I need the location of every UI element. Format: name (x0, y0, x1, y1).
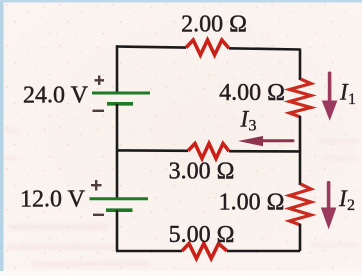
wire right (R4 to middle junction) (299, 116, 302, 152)
wire bottom (left segment) (116, 250, 182, 253)
battery V1 24.0V long plate (92, 92, 150, 95)
wire right (middle junction to R1ohm) (299, 151, 302, 185)
current arrow I3 (left) (238, 136, 295, 146)
battery V2 plus sign (91, 180, 102, 191)
ghost print speckles bottom left (4, 128, 358, 267)
svg-text:1.00 Ω: 1.00 Ω (219, 190, 285, 216)
resistor R=1.00 ohm (right lower, vertical) (290, 184, 312, 225)
battery V2 12.0V short plate (106, 208, 133, 212)
svg-text:5.00 Ω: 5.00 Ω (169, 222, 235, 248)
blue page border top (0, 0, 362, 3)
svg-text:1: 1 (348, 91, 356, 108)
resistor R=2.00 ohm (top) (186, 40, 229, 55)
wire bottom (right segment) (227, 250, 300, 253)
blue page border left (0, 0, 4, 271)
svg-text:3: 3 (249, 118, 257, 135)
wire top (left segment) (117, 47, 186, 48)
battery V2 minus sign (93, 214, 104, 216)
battery V2 12.0V long plate (90, 197, 149, 200)
battery V1 24.0V short plate (107, 102, 133, 106)
wire top (right segment) (229, 48, 300, 49)
wire left upper (top corner to battery V1) (116, 45, 119, 93)
wire left middle (battery V1 to node, through middle junction) (116, 104, 119, 199)
resistor R=5.00 ohm (bottom) (182, 244, 227, 259)
wire middle (left segment) (117, 149, 188, 152)
resistor R=3.00 ohm (middle) (188, 144, 229, 159)
wire right upper (top corner to resistor R4) (299, 49, 302, 81)
svg-text:2.00 Ω: 2.00 Ω (181, 12, 247, 38)
wire right lower (R1ohm to bottom corner) (299, 224, 302, 251)
battery V1 plus sign (95, 76, 105, 86)
svg-text:12.0 V: 12.0 V (20, 187, 86, 213)
current arrow I1 (down) (322, 72, 338, 121)
svg-text:3.00 Ω: 3.00 Ω (169, 159, 235, 185)
svg-text:4.00 Ω: 4.00 Ω (219, 80, 285, 106)
wire left lower (battery V2 to bottom corner) (116, 210, 119, 251)
svg-text:2: 2 (347, 197, 355, 214)
svg-text:24.0 V: 24.0 V (23, 83, 89, 109)
wire middle (right segment) (229, 150, 300, 153)
current arrow I2 (down) (321, 181, 337, 230)
resistor R=4.00 ohm (right upper, vertical) (290, 79, 312, 117)
battery V1 minus sign (93, 110, 105, 112)
